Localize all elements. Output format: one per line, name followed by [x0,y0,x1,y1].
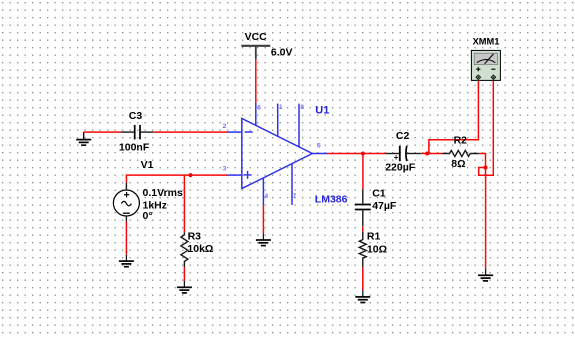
svg-text:1: 1 [279,104,283,111]
svg-text:47µF: 47µF [372,200,397,212]
resistor R2 [443,150,479,156]
svg-text:6.0V: 6.0V [271,47,293,59]
junction dot at V1/R3 node [189,173,193,177]
multimeter XMM1 [471,50,500,80]
wire C2 to R2 node [421,153,442,155]
svg-text:XMM1: XMM1 [473,36,500,46]
source V1 [113,183,139,222]
wire R1 to ground [362,267,364,290]
pin 1 stub [277,104,279,137]
op-amp minus input mark [245,131,253,133]
svg-text:3: 3 [223,165,227,172]
wire V1 bottom to ground [125,222,127,255]
svg-text:2: 2 [223,123,227,130]
svg-text:6: 6 [257,104,261,111]
capacitor C1 [355,189,371,226]
wire R3 to ground [183,267,185,281]
svg-text:R2: R2 [454,135,468,147]
ground G2 (under V1) [119,255,134,267]
junction dot at C2/R2 node [425,152,429,156]
svg-text:220µF: 220µF [385,162,416,174]
pin 7 stub [291,164,293,205]
pin 2 stub [227,131,242,133]
wire R2 right down [479,154,486,176]
wire node up to XMM1 plus [429,81,479,154]
svg-text:10Ω: 10Ω [367,243,387,255]
svg-text:V1: V1 [141,159,154,171]
ground G1 (input, left of C3) [76,132,91,145]
svg-text:R1: R1 [367,230,381,242]
wire ground to C3 [84,131,121,133]
svg-text:4: 4 [265,193,269,200]
op-amp plus input mark [244,171,252,179]
svg-text:C2: C2 [396,130,410,142]
svg-text:C1: C1 [372,188,386,200]
resistor R1 [359,232,366,268]
resistor R3 [181,232,188,267]
svg-text:100nF: 100nF [119,141,150,153]
svg-text:LM386: LM386 [315,194,348,206]
wire V1 top to pin3 [126,175,227,183]
svg-text:5: 5 [317,143,321,150]
pin 5 output stub [312,153,328,155]
svg-text:U1: U1 [315,105,329,117]
svg-text:R3: R3 [188,230,202,242]
svg-text:0.1Vrms: 0.1Vrms [143,187,183,199]
junction dot at output/C1 node [361,152,365,156]
capacitor C2 [385,146,421,162]
wire node to R3 [183,175,185,232]
svg-text:7: 7 [293,193,297,200]
pin 4 stub [262,178,264,205]
svg-text:10kΩ: 10kΩ [187,243,213,255]
capacitor C3 [121,125,154,139]
pin 8 stub [298,104,300,148]
junction dot at jog [484,166,488,170]
svg-text:C3: C3 [129,110,143,122]
svg-text:8: 8 [300,104,304,111]
wire XMM1 minus down with jog [479,81,494,176]
ground G3 (under R3) [177,281,192,293]
svg-text:VCC: VCC [245,31,268,43]
VCC power symbol [241,46,270,59]
pin 6 stub [255,103,257,126]
svg-text:0°: 0° [143,210,153,222]
wire C1 to R1 [362,226,364,231]
pin 3 stub [227,174,242,176]
wire down to ground G6 [485,175,487,268]
ground G6 (bottom right) [478,269,493,281]
op-amp U1 triangle [242,118,312,188]
svg-text:8Ω: 8Ω [451,158,465,170]
ground G5 (under R1) [355,290,370,303]
wire C3 to pin2 [153,131,227,133]
wire VCC to pin6 [255,59,257,103]
wire pin4 to ground [262,205,264,233]
wire output node down to C1 [362,154,364,190]
wire pin5 output [328,153,385,155]
ground G4 (under op-amp) [256,234,271,246]
